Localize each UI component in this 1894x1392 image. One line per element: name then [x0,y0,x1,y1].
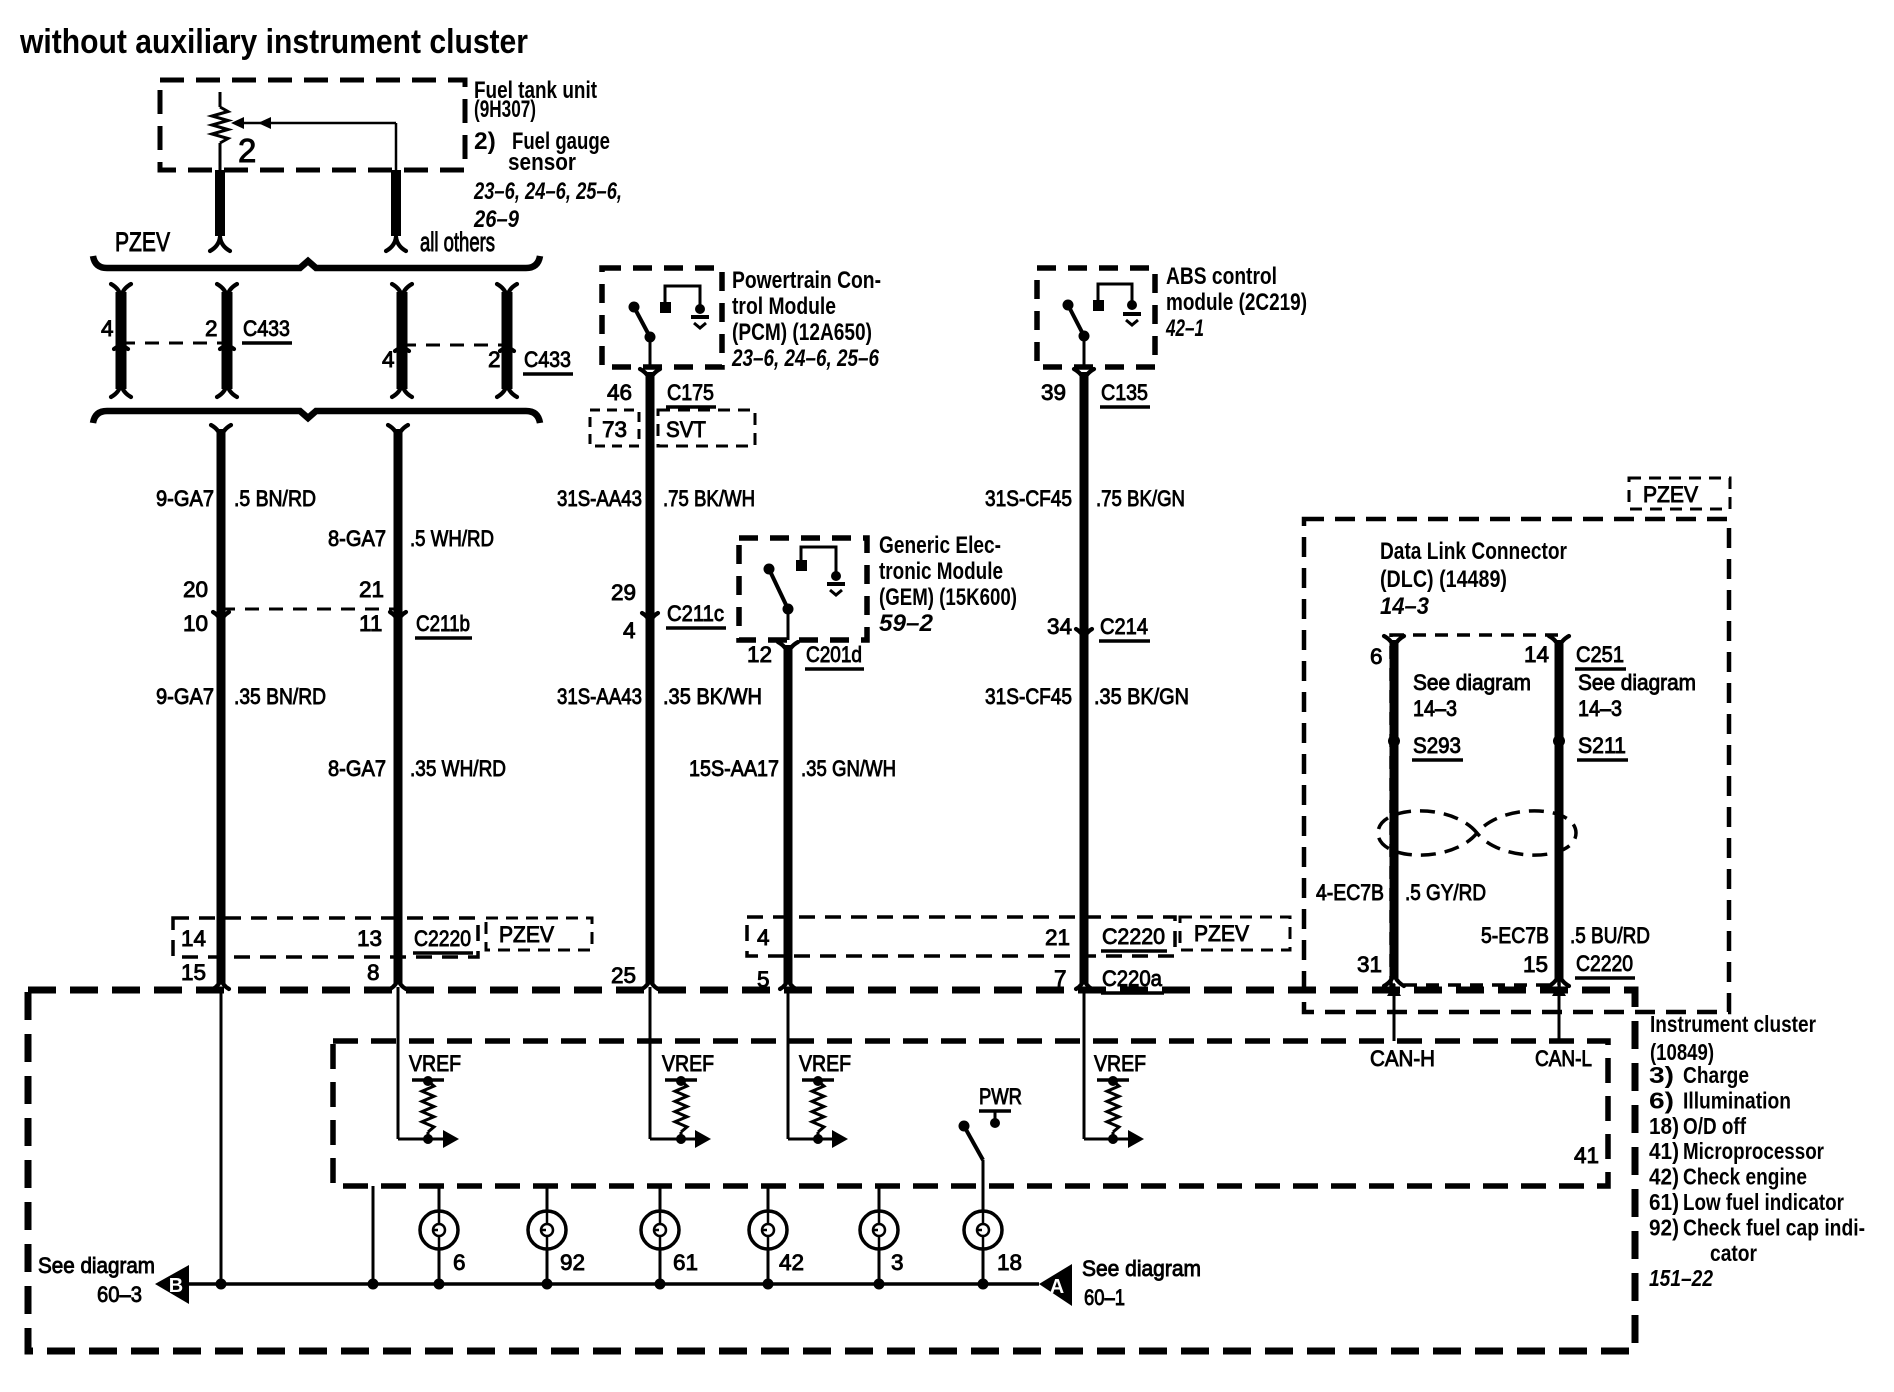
svg-text:C211c: C211c [667,601,724,626]
svg-text:4: 4 [623,618,636,643]
svg-text:31S-AA43: 31S-AA43 [557,486,642,511]
svg-text:4-EC7B: 4-EC7B [1316,880,1384,905]
svg-text:2: 2 [205,316,218,341]
svg-text:6): 6) [1649,1087,1674,1113]
svg-text:15: 15 [1523,952,1548,977]
svg-text:2: 2 [488,347,501,372]
svg-text:31S-CF45: 31S-CF45 [985,684,1072,709]
svg-text:61): 61) [1649,1189,1679,1215]
svg-text:60–3: 60–3 [97,1282,142,1307]
svg-text:CAN-H: CAN-H [1370,1046,1435,1071]
svg-text:C251: C251 [1576,642,1624,667]
svg-text:7: 7 [1054,966,1067,991]
svg-text:PZEV: PZEV [115,227,170,257]
svg-text:8-GA7: 8-GA7 [328,756,386,781]
svg-text:29: 29 [611,580,636,605]
svg-text:34: 34 [1047,614,1072,639]
svg-text:Charge: Charge [1683,1062,1749,1088]
svg-text:VREF: VREF [662,1051,714,1076]
svg-text:31S-CF45: 31S-CF45 [985,486,1072,511]
svg-text:ABS control: ABS control [1166,263,1277,290]
svg-text:26–9: 26–9 [473,206,519,233]
svg-text:trol Module: trol Module [732,293,836,320]
svg-text:5-EC7B: 5-EC7B [1481,923,1549,948]
svg-text:2): 2) [474,128,496,155]
svg-text:60–1: 60–1 [1084,1285,1125,1310]
svg-text:See diagram: See diagram [1082,1256,1201,1281]
svg-text:10: 10 [183,611,208,636]
svg-text:6: 6 [453,1250,466,1275]
svg-text:A: A [1050,1276,1064,1298]
svg-text:92: 92 [560,1250,585,1275]
svg-text:4: 4 [757,925,770,950]
svg-text:25: 25 [611,963,636,988]
svg-text:C220a: C220a [1102,966,1162,991]
svg-text:.5 BU/RD: .5 BU/RD [1570,923,1650,948]
svg-text:PWR: PWR [979,1084,1022,1109]
svg-text:.5 BN/RD: .5 BN/RD [234,486,316,511]
svg-text:14: 14 [181,926,206,951]
svg-text:13: 13 [357,926,382,951]
svg-text:23–6, 24–6, 25–6,: 23–6, 24–6, 25–6, [473,178,622,205]
svg-text:8-GA7: 8-GA7 [328,526,386,551]
svg-text:5: 5 [757,967,770,992]
svg-text:C201d: C201d [806,642,862,667]
svg-text:4: 4 [101,316,114,341]
svg-text:14–3: 14–3 [1578,696,1622,721]
svg-text:.35 GN/WH: .35 GN/WH [801,756,896,781]
svg-text:14: 14 [1524,642,1549,667]
svg-text:31: 31 [1357,952,1382,977]
svg-text:without auxiliary instrument c: without auxiliary instrument cluster [19,23,528,61]
svg-text:61: 61 [673,1250,698,1275]
svg-text:21: 21 [1045,925,1070,950]
svg-text:.75 BK/WH: .75 BK/WH [663,486,755,511]
svg-text:See diagram: See diagram [1578,670,1696,695]
svg-text:S211: S211 [1578,733,1626,758]
svg-text:.75 BK/GN: .75 BK/GN [1096,486,1185,511]
svg-text:23–6, 24–6, 25–6: 23–6, 24–6, 25–6 [731,345,879,372]
svg-text:tronic Module: tronic Module [879,558,1003,585]
svg-text:Check fuel cap indi-: Check fuel cap indi- [1683,1214,1865,1240]
svg-text:42): 42) [1649,1164,1679,1190]
svg-text:15: 15 [181,960,206,985]
svg-text:sensor: sensor [508,149,576,176]
svg-text:Low fuel indicator: Low fuel indicator [1683,1189,1844,1215]
svg-text:4: 4 [382,347,395,372]
svg-text:S293: S293 [1413,733,1461,758]
svg-text:73: 73 [602,417,627,442]
svg-text:39: 39 [1041,380,1066,405]
svg-text:.35 WH/RD: .35 WH/RD [410,756,506,781]
svg-text:(9H307): (9H307) [474,96,536,123]
svg-text:cator: cator [1710,1240,1757,1266]
svg-text:8: 8 [367,960,380,985]
svg-text:18): 18) [1649,1113,1679,1139]
svg-text:.35 BN/RD: .35 BN/RD [234,684,326,709]
svg-text:Generic Elec-: Generic Elec- [879,532,1001,559]
svg-text:CAN-L: CAN-L [1535,1046,1592,1071]
svg-text:C433: C433 [243,316,290,341]
svg-text:20: 20 [183,577,208,602]
svg-text:SVT: SVT [666,417,706,442]
svg-text:Illumination: Illumination [1683,1087,1791,1113]
svg-text:18: 18 [997,1250,1022,1275]
svg-text:Instrument cluster: Instrument cluster [1650,1011,1816,1037]
svg-text:42–1: 42–1 [1165,315,1204,342]
svg-text:C175: C175 [667,380,714,405]
svg-text:31S-AA43: 31S-AA43 [557,684,642,709]
svg-text:3): 3) [1649,1062,1674,1088]
svg-text:9-GA7: 9-GA7 [156,684,214,709]
svg-text:C433: C433 [524,347,571,372]
svg-text:14–3: 14–3 [1380,593,1429,620]
svg-text:41): 41) [1649,1138,1679,1164]
svg-text:PZEV: PZEV [1194,921,1249,946]
svg-text:21: 21 [359,577,384,602]
svg-text:.5 GY/RD: .5 GY/RD [1405,880,1486,905]
svg-text:Check engine: Check engine [1683,1164,1807,1190]
svg-text:VREF: VREF [1094,1051,1146,1076]
svg-text:151–22: 151–22 [1649,1265,1713,1291]
svg-text:PZEV: PZEV [1643,482,1698,507]
svg-text:Microprocessor: Microprocessor [1683,1138,1824,1164]
svg-text:O/D off: O/D off [1683,1113,1746,1139]
svg-text:C211b: C211b [416,611,470,636]
svg-text:See diagram: See diagram [38,1253,155,1278]
svg-text:(GEM) (15K600): (GEM) (15K600) [879,584,1017,611]
svg-text:C2220: C2220 [1102,924,1165,949]
svg-text:module (2C219): module (2C219) [1166,289,1307,316]
svg-text:(PCM) (12A650): (PCM) (12A650) [732,319,872,346]
svg-text:.5 WH/RD: .5 WH/RD [410,526,494,551]
svg-text:C2220: C2220 [414,926,471,951]
svg-text:VREF: VREF [409,1051,461,1076]
svg-text:Powertrain Con-: Powertrain Con- [732,267,881,294]
svg-text:15S-AA17: 15S-AA17 [689,756,779,781]
svg-text:46: 46 [607,380,632,405]
svg-text:.35 BK/GN: .35 BK/GN [1094,684,1189,709]
svg-text:Data Link Connector: Data Link Connector [1380,538,1567,565]
svg-text:12: 12 [747,642,772,667]
svg-text:.35 BK/WH: .35 BK/WH [663,684,762,709]
svg-text:11: 11 [359,611,382,636]
svg-text:C214: C214 [1100,614,1148,639]
svg-text:92): 92) [1649,1214,1679,1240]
svg-text:3: 3 [891,1250,904,1275]
svg-text:See diagram: See diagram [1413,670,1531,695]
svg-text:C135: C135 [1101,380,1148,405]
svg-text:2: 2 [238,132,256,169]
svg-text:59–2: 59–2 [879,610,933,637]
svg-text:(DLC) (14489): (DLC) (14489) [1380,566,1507,593]
svg-text:C2220: C2220 [1576,951,1633,976]
svg-text:42: 42 [779,1250,804,1275]
svg-text:14–3: 14–3 [1413,696,1457,721]
svg-text:VREF: VREF [799,1051,851,1076]
svg-text:PZEV: PZEV [499,922,554,947]
svg-text:9-GA7: 9-GA7 [156,486,214,511]
svg-text:41: 41 [1574,1143,1599,1168]
svg-text:6: 6 [1370,644,1383,669]
svg-text:B: B [169,1275,183,1297]
